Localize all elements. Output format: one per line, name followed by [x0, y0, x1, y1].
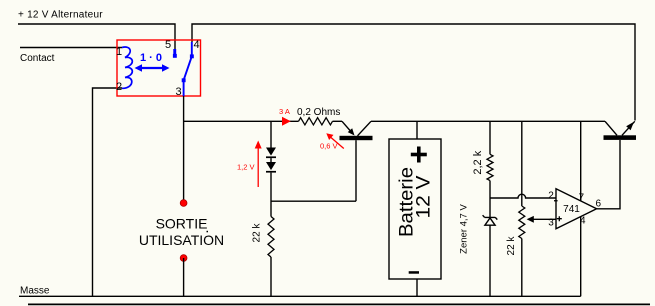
svg-text:2: 2: [116, 81, 122, 93]
svg-text:5: 5: [165, 39, 171, 51]
svg-text:+ 12 V Alternateur: + 12 V Alternateur: [18, 10, 103, 21]
op-amp U1 741: [556, 189, 597, 229]
wire D2 to 22k: [270, 173, 272, 217]
wire zener to Masse: [489, 225, 491, 296]
svg-text:1: 1: [116, 46, 122, 58]
svg-text:7: 7: [579, 193, 585, 204]
wire relay pin 2 to Masse: [93, 88, 123, 296]
transistor Q2: [604, 121, 637, 140]
svg-text:0,2 Ohms: 0,2 Ohms: [297, 107, 340, 118]
wire op-amp pin 7 to rail: [580, 121, 582, 201]
battery plus: [411, 147, 427, 163]
resistor R2 22k: [268, 217, 274, 258]
svg-text:Contact: Contact: [20, 53, 55, 64]
resistor R3 2,2k: [487, 154, 493, 180]
svg-text:741: 741: [563, 204, 580, 215]
svg-text:12 V: 12 V: [414, 175, 435, 218]
battery B1: [416, 121, 418, 139]
wire 22k to Masse: [270, 257, 272, 296]
wire Masse rail: [19, 295, 581, 297]
node SORTIE dot 2: [180, 255, 187, 262]
svg-text:22 k: 22 k: [506, 236, 517, 256]
current arrow 3 A: [279, 107, 291, 126]
dot between SORTIE lines: [207, 231, 209, 233]
wire diode branch top: [270, 121, 272, 147]
svg-text:Masse: Masse: [20, 286, 50, 297]
svg-text:1,2 V: 1,2 V: [237, 163, 255, 172]
wire main rail y121: [184, 120, 299, 122]
svg-text:3: 3: [548, 218, 554, 229]
svg-text:0,6 V: 0,6 V: [320, 142, 338, 151]
svg-text:22 k: 22 k: [252, 223, 263, 243]
svg-text:1 · 0: 1 · 0: [140, 52, 162, 64]
wire pot branch: [521, 121, 523, 206]
potentiometer P1 22k: [519, 206, 525, 239]
svg-text:2,2 k: 2,2 k: [472, 150, 484, 174]
svg-text:2: 2: [548, 191, 554, 202]
wire relay pin 4 to top-right rail: [192, 24, 635, 121]
wire Q1 base to diode junction: [271, 200, 356, 202]
svg-text:Zener 4,7 V: Zener 4,7 V: [459, 204, 470, 254]
node SORTIE dot 1: [180, 200, 187, 207]
wire R3 to zener: [489, 181, 491, 218]
voltage arrow 1,2 V: [237, 141, 262, 188]
pot wiper to op-amp pin 3: [527, 216, 556, 223]
wire op-amp pin 4 to Masse: [580, 217, 582, 296]
svg-text:SORTIE: SORTIE: [156, 216, 208, 232]
battery minus: [409, 271, 419, 274]
svg-text:3: 3: [176, 86, 182, 98]
op-amp minus: [554, 200, 558, 201]
wire relay pin 3 down to node: [183, 96, 185, 203]
svg-text:4: 4: [194, 39, 200, 51]
relay K1 box: [117, 40, 201, 96]
bottom frame line: [28, 303, 650, 305]
svg-text:UTILISATION: UTILISATION: [139, 232, 224, 248]
wire pot to Masse: [521, 239, 523, 297]
transistor Q1: [340, 121, 373, 201]
svg-text:3 A: 3 A: [279, 107, 290, 116]
wire +12V rail to relay pin 5: [18, 24, 175, 49]
relay pin 4 contact and blade: [182, 42, 194, 96]
voltage arrow 0,6 V: [320, 133, 344, 150]
relay coil: [122, 47, 132, 88]
svg-text:6: 6: [596, 199, 602, 210]
diode D2: [266, 162, 276, 173]
wire junction to op-amp pin 2 with hop: [490, 194, 556, 198]
wire 2,2k branch top: [489, 121, 491, 154]
diode D1: [266, 148, 276, 159]
wire resistor to Q1 emitter: [333, 120, 343, 122]
relay double arrow: [135, 64, 170, 71]
relay pin 5 contact: [173, 49, 177, 58]
wire Contact to relay pin 1: [20, 47, 122, 49]
op-amp plus: [557, 216, 562, 221]
wire D1 to D2: [270, 158, 272, 162]
wire op-amp output to Q2 base: [597, 140, 620, 209]
wire SORTIE to Masse: [183, 258, 185, 296]
zener diode DZ 4,7V: [483, 215, 498, 225]
wire Q1 collector rail to Q2: [371, 120, 605, 122]
